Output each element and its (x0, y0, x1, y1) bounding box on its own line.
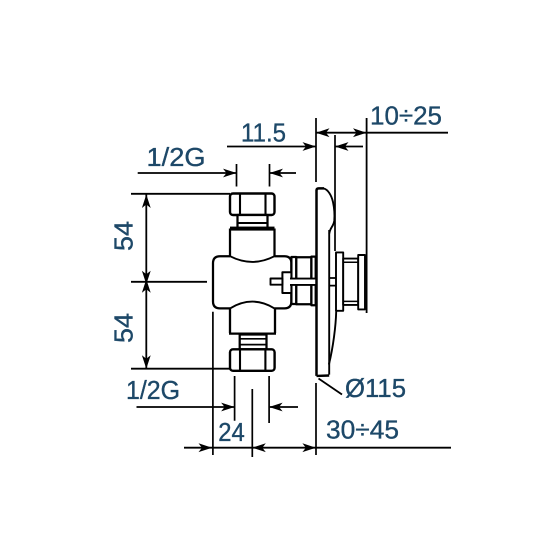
pin holder block (282, 272, 291, 293)
connector nut (296, 257, 311, 304)
extension lines 1/2G bottom (235, 376, 270, 423)
bottom stub thread lines (240, 339, 266, 345)
dimension line 54+54 vertical (145, 194, 147, 369)
top hex nut facet lines (240, 194, 266, 214)
arrow 54 bottom down (142, 355, 151, 369)
flange bottom edge (317, 374, 330, 377)
pin tip rod (271, 279, 283, 285)
extension line center axis (251, 389, 253, 457)
arrow 1/2G top right (270, 169, 284, 178)
dimension line 10÷25 (316, 132, 448, 134)
arrow 24/30÷45 shared (points left) (252, 443, 265, 452)
spindle stub behind flange (329, 278, 336, 286)
svg-text:11.5: 11.5 (241, 118, 286, 148)
flange rear silhouette (328, 230, 330, 375)
arrow 54 top up (142, 195, 151, 209)
extension line flange face top (315, 118, 317, 182)
leader line Ø115 (319, 379, 343, 395)
body bottom fillet arc (230, 302, 275, 309)
arrow 30÷45 right (302, 443, 316, 452)
wall reference line (366, 118, 368, 313)
flange rim curl top (324, 189, 335, 234)
top threaded stub 1/2G (238, 215, 268, 228)
extension line body left (212, 312, 214, 455)
svg-text:54: 54 (109, 221, 139, 251)
arrow 54 middle up (142, 279, 151, 293)
sleeve cylinder chamfer lines (343, 262, 358, 301)
arrow 11.5 left (points right at flange face) (303, 142, 317, 151)
ring before flange (311, 257, 315, 306)
arrow 10÷25 left (points left) (316, 128, 330, 137)
svg-text:1/2G: 1/2G (126, 375, 180, 405)
svg-text:1/2G: 1/2G (147, 142, 206, 172)
tick line top (131, 193, 230, 195)
arrow 11.5 right (points left at dome line) (335, 142, 349, 151)
arrow 1/2G top left (223, 169, 237, 178)
arrow 54 middle down (142, 271, 151, 285)
bottom hex nut (230, 349, 275, 371)
spindle band through nut (290, 279, 317, 285)
svg-text:24: 24 (218, 417, 245, 447)
top hex nut (230, 194, 275, 216)
bottom hex nut facet lines (240, 350, 265, 370)
arrow 10÷25 right (points right) (353, 128, 367, 137)
extension line dome rear (334, 135, 336, 251)
sleeve cylinder (343, 259, 358, 305)
top collar sides (230, 229, 275, 257)
bottom threaded stub 1/2G (240, 335, 267, 350)
svg-text:54: 54 (109, 313, 139, 343)
arrow 24 left (199, 443, 213, 452)
svg-text:10÷25: 10÷25 (370, 101, 442, 131)
svg-text:30÷45: 30÷45 (326, 415, 399, 445)
svg-text:Ø115: Ø115 (345, 373, 406, 403)
bottom collar (229, 309, 276, 334)
tick line bottom (131, 368, 230, 370)
dimension line 1/2G bottom (137, 406, 299, 408)
arrow 1/2G bottom right (269, 403, 283, 412)
flange front face (317, 188, 325, 376)
top collar thick shoulder (230, 227, 275, 231)
body top fillet arc (230, 256, 275, 262)
bottom dimension line 24 / 30÷45 (184, 447, 451, 449)
sleeve end ring (358, 255, 365, 309)
top stub thread line (238, 222, 267, 224)
arrow 1/2G bottom left (221, 403, 235, 412)
extension line flange face bottom (315, 383, 317, 455)
washer at body outlet (291, 257, 296, 304)
tick line middle axis (131, 281, 207, 283)
extension lines 1/2G top (237, 164, 270, 187)
flange rim curl bottom (329, 312, 336, 365)
dimension line 1/2G top (138, 172, 296, 174)
sleeve ring left (336, 252, 343, 310)
dimension line 11.5 (227, 146, 363, 148)
valve body U1 (213, 256, 291, 308)
